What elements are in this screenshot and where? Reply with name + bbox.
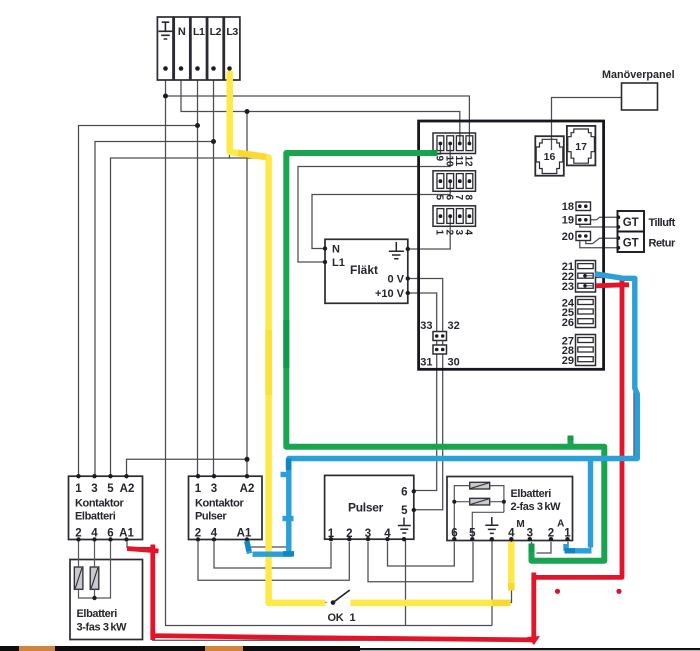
junction dots top <box>163 94 250 462</box>
svg-text:2: 2 <box>443 230 454 236</box>
jack 17 <box>567 126 596 165</box>
svg-text:A2: A2 <box>120 483 135 495</box>
wire L3 under yellow marker <box>111 71 512 603</box>
svg-text:Kontaktor: Kontaktor <box>195 498 244 510</box>
red corner ticks <box>622 282 629 287</box>
blue tick <box>283 516 294 521</box>
terminal 20 <box>562 231 591 243</box>
svg-text:+10 V: +10 V <box>375 288 405 300</box>
Manoverpanel box <box>602 69 675 110</box>
svg-text:A2: A2 <box>240 483 255 495</box>
wire Flakt +10V to terminal 33 and Pulser 6 <box>408 293 437 491</box>
svg-text:Kontaktor: Kontaktor <box>75 498 124 510</box>
svg-text:Elbatteri: Elbatteri <box>511 488 552 500</box>
svg-text:23: 23 <box>562 281 574 293</box>
wire under blue marker branch to Elbatteri 2-fas A1 <box>568 459 591 553</box>
control unit box <box>419 121 604 369</box>
svg-text:8: 8 <box>463 195 474 201</box>
Kontaktor Elbatteri box <box>69 474 143 542</box>
heater wiring <box>454 486 504 540</box>
wire connector 2 to Flakt earth <box>408 216 450 249</box>
wire connector 10 to Flakt L1 <box>298 144 450 263</box>
connector group 5-8 <box>433 171 476 201</box>
connector group 9-12 <box>433 133 476 167</box>
svg-text:10: 10 <box>443 156 454 168</box>
wire Manoverpanel to jack 16 <box>552 98 622 151</box>
svg-text:26: 26 <box>562 317 574 329</box>
wire L2 to contactors <box>95 71 214 476</box>
svg-text:Tilluft: Tilluft <box>649 217 676 229</box>
wire Pulser 4 to Elbatteri 2-fas 6 <box>388 542 455 566</box>
svg-text:Manöverpanel: Manöverpanel <box>602 69 675 81</box>
svg-text:16: 16 <box>544 151 556 163</box>
orange page edge segment 2 <box>205 646 243 651</box>
svg-text:L3: L3 <box>226 26 238 38</box>
green marker darker caps <box>286 153 570 552</box>
svg-text:19: 19 <box>562 215 574 227</box>
terminal pair 31 30 <box>420 345 460 369</box>
wire terminal 20 to GT Retur <box>580 238 618 248</box>
wire Kontaktor Pulser 2 to Pulser 2 <box>198 542 349 580</box>
svg-text:9: 9 <box>434 156 445 162</box>
jack 16 <box>535 136 564 176</box>
svg-text:32: 32 <box>448 320 460 332</box>
svg-text:1: 1 <box>75 483 82 495</box>
svg-text:5: 5 <box>107 483 114 495</box>
GT Tilluft box <box>616 211 675 232</box>
wire under blue marker: terminal 22 to Kontaktor Pulser A1 <box>247 278 634 548</box>
svg-text:0 V: 0 V <box>387 273 404 285</box>
Elbatteri 3-fas box <box>70 541 143 640</box>
svg-text:N: N <box>178 26 186 38</box>
svg-text:3: 3 <box>453 230 464 236</box>
GT Retur box <box>616 232 676 253</box>
green marker wire connector 9 to M3 <box>286 153 604 561</box>
svg-text:GT: GT <box>623 217 639 229</box>
blue marker wire terminal 22 to Kontaktor Pulser A1 <box>247 274 638 554</box>
svg-text:3-fas 3 kW: 3-fas 3 kW <box>77 622 128 634</box>
svg-text:5: 5 <box>401 505 408 517</box>
svg-text:20: 20 <box>562 231 574 243</box>
wire Flakt 0V to terminal 32 and Pulser 5 <box>408 279 443 510</box>
bottom page edge bar <box>0 646 360 651</box>
svg-text:Pulser: Pulser <box>195 511 227 523</box>
svg-text:M: M <box>516 519 524 530</box>
svg-text:2-fas 3 kW: 2-fas 3 kW <box>511 501 562 513</box>
orange page edge segment 1 <box>19 646 55 651</box>
red marker wire terminal 23 to Kontaktor Elbatteri A1 <box>127 279 629 640</box>
svg-text:L1: L1 <box>332 257 345 269</box>
terminal block X1 <box>157 17 240 80</box>
heater element R1 <box>470 482 490 489</box>
blue marker darker caps <box>247 459 575 554</box>
svg-text:31: 31 <box>420 357 432 369</box>
svg-text:L2: L2 <box>210 26 222 38</box>
bottom page edge thin line right <box>360 648 700 650</box>
wire Pulser 3 to Elbatteri 2-fas 5 <box>368 542 473 582</box>
svg-text:6: 6 <box>443 195 454 201</box>
svg-text:A1: A1 <box>237 528 252 540</box>
wire Kontaktor Pulser 4 to Pulser 1 <box>214 542 331 568</box>
svg-text:N: N <box>332 244 340 256</box>
wire under green marker: connector 9 to Elbatteri 2-fas M3 <box>286 144 605 562</box>
svg-text:5: 5 <box>434 195 445 201</box>
svg-text:12: 12 <box>463 156 474 168</box>
wire N from terminal block to connector 11 and contactor coils <box>127 71 460 476</box>
wire Elbatteri 2-fas 2 to node 3 <box>537 542 552 553</box>
svg-text:Elbatteri: Elbatteri <box>75 511 116 523</box>
svg-text:Retur: Retur <box>649 238 676 250</box>
svg-text:L1: L1 <box>193 26 205 38</box>
terminal 18 <box>562 201 591 213</box>
svg-text:11: 11 <box>453 156 464 167</box>
yellow marker darker caps <box>238 153 511 603</box>
svg-text:Elbatteri: Elbatteri <box>77 608 118 620</box>
Kontaktor Pulser box <box>189 474 263 542</box>
ground symbol Elbatteri 2-fas <box>485 517 498 533</box>
red paint dots <box>555 589 560 594</box>
svg-text:1: 1 <box>195 483 202 495</box>
heater element vertical 1 <box>74 567 83 589</box>
svg-text:3: 3 <box>91 483 97 495</box>
svg-text:1: 1 <box>434 230 445 236</box>
svg-text:6: 6 <box>401 486 407 498</box>
wire connector 6 to Flakt N <box>312 181 450 249</box>
wire PE from terminal block to node and bus <box>166 71 493 626</box>
svg-text:Fläkt: Fläkt <box>350 263 378 277</box>
terminal 19 <box>562 215 591 227</box>
svg-text:30: 30 <box>448 357 460 369</box>
blue branch to Elbatteri 2-fas A1 <box>588 459 593 548</box>
heater element R2 <box>470 498 490 505</box>
svg-text:7: 7 <box>453 195 464 201</box>
terminal group 27-29 <box>562 335 596 367</box>
ground symbol in terminal block <box>159 22 173 39</box>
svg-text:Pulser: Pulser <box>348 501 384 515</box>
svg-text:33: 33 <box>420 320 432 332</box>
svg-text:1: 1 <box>350 612 356 624</box>
green tick <box>568 436 574 447</box>
red marker arrow at bottom corner <box>527 636 540 645</box>
terminal group 24-26 <box>562 297 596 329</box>
svg-text:29: 29 <box>562 355 574 367</box>
Flakt box <box>323 239 410 303</box>
svg-text:GT: GT <box>623 238 639 250</box>
ground symbol Pulser <box>398 518 411 534</box>
terminal group 21-23 <box>562 261 596 294</box>
terminal pair 33 32 <box>420 320 460 341</box>
heater wiring 3-fas <box>79 541 111 598</box>
heater element vertical 2 <box>90 567 99 589</box>
svg-text:3: 3 <box>211 483 217 495</box>
wire L1 to contactors <box>79 71 198 476</box>
Elbatteri 2-fas box <box>447 477 573 542</box>
connector group 1-4 <box>433 206 476 236</box>
yellow marker wire L3 circuit <box>230 71 512 603</box>
switch OK 1 <box>328 590 356 624</box>
svg-text:18: 18 <box>562 201 574 213</box>
wire under red marker: terminal 23 to Kontaktor Elbatteri A1 <box>127 286 622 640</box>
svg-text:4: 4 <box>463 230 474 236</box>
wire terminal 19 to GT Tilluft <box>580 217 618 227</box>
svg-text:OK: OK <box>328 612 344 624</box>
svg-text:17: 17 <box>575 141 587 153</box>
ground symbol Flakt <box>389 242 404 259</box>
Pulser box <box>325 475 416 541</box>
